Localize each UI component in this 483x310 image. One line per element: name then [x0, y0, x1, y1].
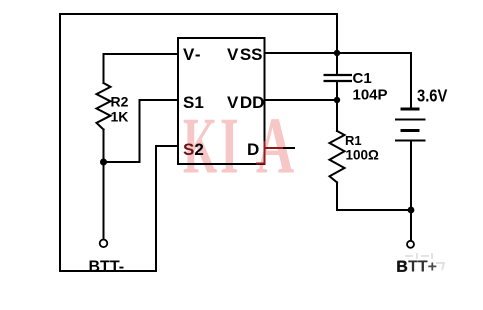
terminal BTT+ open circle: [407, 241, 414, 248]
wire outer top loop: [60, 14, 337, 271]
faint watermark smudge above BTT+: [405, 253, 444, 270]
wire VDD: [265, 99, 338, 101]
capacitor C1: [324, 75, 353, 81]
dark red overlap: D stub start: [265, 147, 284, 149]
dark red overlap: IC right edge through watermark: [264, 141, 266, 164]
wire VSS node to C1 top: [336, 53, 338, 74]
wire C1 bottom through VDD node to R1 top: [336, 82, 338, 131]
svg-text:R1: R1: [345, 133, 362, 148]
watermark KIA: [183, 101, 294, 191]
junction node at VDD/C1: [334, 97, 340, 103]
battery BT1 3.6V: [395, 109, 426, 141]
op-amp U1 IC body: [178, 38, 265, 164]
svg-text:I: I: [220, 102, 239, 191]
wire node to BTT- terminal: [103, 162, 105, 239]
svg-text:D: D: [247, 140, 259, 159]
wire S1 loop: [104, 100, 179, 162]
resistor R1: [330, 131, 345, 182]
svg-text:A: A: [256, 102, 294, 191]
svg-text:S1: S1: [183, 93, 204, 112]
svg-text:VSS: VSS: [227, 45, 263, 64]
resistor R2: [97, 83, 111, 130]
dark red overlap: IC bottom edge corner: [256, 163, 266, 165]
svg-text:3.6V: 3.6V: [417, 86, 447, 106]
svg-text:V-: V-: [183, 45, 201, 64]
svg-text:100Ω: 100Ω: [346, 147, 380, 162]
wire VSS to battery top: [265, 53, 412, 108]
wire R2 bottom to node: [103, 130, 105, 163]
svg-text:104P: 104P: [353, 87, 388, 104]
svg-text:R2: R2: [111, 94, 129, 110]
terminal BTT- open circle: [100, 240, 108, 248]
junction node at battery/R1/BTT+: [408, 207, 415, 214]
svg-text:BTT-: BTT-: [89, 259, 125, 276]
svg-text:S2: S2: [183, 140, 204, 159]
svg-text:C1: C1: [353, 70, 372, 87]
wire R1 bottom to battery node: [337, 182, 411, 210]
wire D stub: [265, 147, 295, 149]
wire battery bottom to BTT+ terminal: [410, 141, 412, 241]
junction node at R2/S1/BTT-: [100, 159, 107, 166]
junction node at VSS/C1: [334, 50, 340, 56]
svg-text:1K: 1K: [111, 109, 129, 125]
wire V- to R2 top: [104, 54, 179, 83]
svg-text:VDD: VDD: [227, 93, 264, 112]
wire bottom loop to S2: [60, 146, 178, 271]
svg-text:B: B: [396, 259, 408, 276]
